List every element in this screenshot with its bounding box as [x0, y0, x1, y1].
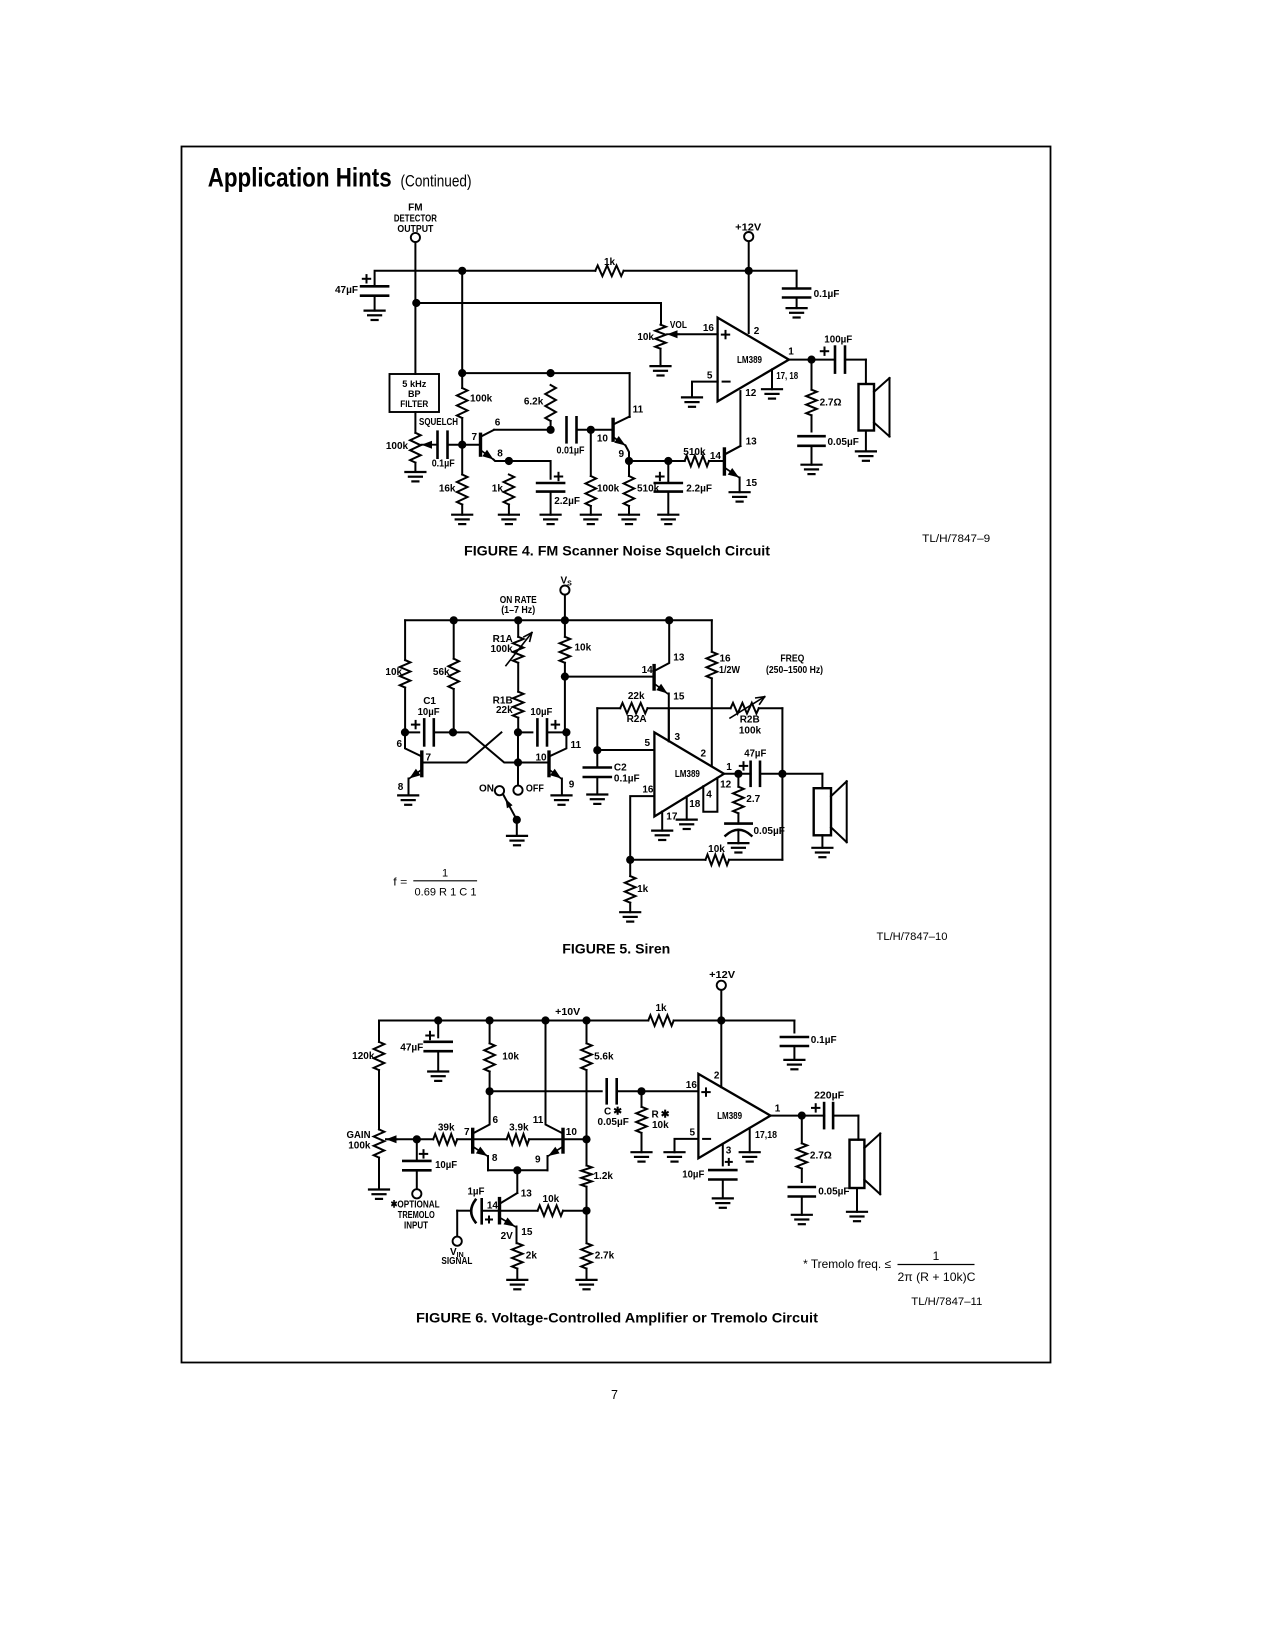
junction C*/R* [637, 1087, 645, 1095]
wire top rail (fig5) [405, 619, 712, 621]
svg-text:10: 10 [597, 434, 609, 445]
svg-text:6: 6 [396, 739, 402, 750]
ground under speaker [856, 450, 876, 452]
resistor 1k (fig4 emitter) [504, 475, 515, 505]
resistor 120k [378, 1021, 380, 1042]
svg-text:16: 16 [686, 1080, 698, 1091]
svg-text:LM389: LM389 [737, 355, 762, 366]
ground pin5 (fig6) [665, 1151, 685, 1153]
svg-text:16k: 16k [439, 483, 456, 494]
junction wiper/10uF [413, 1135, 421, 1143]
resistor 510k horizontal [685, 456, 709, 467]
resistor 100k (fig4 second) [590, 430, 592, 476]
wire output (fig6) [771, 1115, 825, 1117]
junction rail/47uF [434, 1016, 442, 1024]
capacitor 0.1uF squelch [436, 432, 439, 458]
resistor 2.7 ohm (fig6) [801, 1116, 803, 1144]
svg-text:7: 7 [611, 1388, 618, 1402]
wire pin2 (fig6) [720, 1021, 722, 1088]
ground pin5 [682, 396, 702, 398]
svg-text:1: 1 [726, 762, 732, 773]
transistor Q10 (fig6) [561, 1129, 564, 1152]
svg-text:INPUT: INPUT [404, 1220, 428, 1231]
svg-text:1: 1 [788, 347, 794, 358]
svg-text:Application Hints: Application Hints [208, 162, 392, 192]
svg-text:f =: f = [393, 877, 407, 889]
wire pin5 to ground (fig6) [675, 1139, 699, 1152]
svg-text:16: 16 [642, 784, 654, 795]
junction 1.2k / 10k row [582, 1207, 590, 1215]
wire crossover right-to-left [422, 732, 502, 762]
svg-text:FILTER: FILTER [400, 399, 428, 409]
wire R2A row [597, 707, 620, 709]
ground under 2.2uF second [658, 514, 678, 516]
wire pin5 to ground [692, 382, 718, 398]
junction rail/Q10 collector [541, 1016, 549, 1024]
svg-text:15: 15 [673, 691, 685, 702]
wire squelch wiper [422, 444, 438, 446]
svg-text:0.05µF: 0.05µF [598, 1117, 629, 1128]
svg-text:LM389: LM389 [675, 769, 700, 780]
svg-text:10µF: 10µF [530, 707, 552, 718]
svg-text:16: 16 [703, 323, 715, 334]
capacitor 100uF output [834, 347, 837, 373]
svg-text:1k: 1k [655, 1003, 667, 1014]
transistor Q10 (fig5) [547, 752, 550, 776]
svg-text:10µF: 10µF [435, 1160, 457, 1171]
svg-text:22k: 22k [628, 691, 645, 702]
junction C1 left / Q7 collector [401, 728, 409, 736]
ground under 1k (fig5) [620, 911, 640, 913]
svg-text:18: 18 [689, 799, 701, 810]
svg-text:VOL: VOL [670, 320, 687, 331]
svg-text:7: 7 [464, 1127, 470, 1138]
svg-text:1: 1 [933, 1249, 940, 1263]
junction 10uF/R1B [514, 728, 522, 736]
resistor 16k [457, 475, 468, 505]
resistor 2k [512, 1243, 523, 1268]
junction 5.6k / Q10 base [582, 1135, 590, 1143]
svg-text:510k: 510k [683, 447, 706, 458]
wire to Q14 base [565, 676, 654, 678]
resistor 2.7k [586, 1211, 588, 1244]
svg-text:SQUELCH: SQUELCH [419, 417, 458, 428]
svg-text:8: 8 [492, 1153, 498, 1164]
svg-text:+12V: +12V [735, 223, 761, 234]
svg-text:10k: 10k [637, 332, 654, 343]
junction crossover/OFF switch [514, 758, 522, 766]
svg-text:2V: 2V [501, 1231, 514, 1242]
svg-text:100k: 100k [739, 726, 762, 737]
svg-text:R2B: R2B [740, 715, 760, 726]
wire feedback bottom (fig5) [630, 859, 705, 861]
ground under 2.2uF [541, 514, 561, 516]
terminal Vin [453, 1237, 462, 1246]
svg-text:10k: 10k [543, 1194, 560, 1205]
ground Q7 emitter (fig5) [398, 794, 418, 796]
ground under speaker (fig6) [847, 1211, 867, 1213]
resistor R* 10k [641, 1091, 643, 1107]
svg-text:OFF: OFF [526, 783, 544, 794]
ground under 16k [452, 514, 472, 516]
resistor 1.2k [586, 1139, 588, 1165]
svg-text:0.05µF: 0.05µF [818, 1187, 849, 1198]
capacitor 0.05uF (fig6) [789, 1186, 815, 1189]
wire GAIN wiper [386, 1138, 417, 1140]
resistor 10k (fig6 left) [489, 1021, 491, 1044]
junction rail/5.6k [582, 1016, 590, 1024]
resistor 510k vertical [624, 476, 635, 506]
transistor Q7 (fig6) [471, 1129, 474, 1152]
svg-text:100k: 100k [490, 644, 513, 655]
resistor 2.7 ohm [811, 360, 813, 390]
svg-text:5: 5 [707, 370, 713, 381]
capacitor C2 0.1uF [596, 750, 598, 767]
svg-text:9: 9 [569, 780, 575, 791]
wire BP filter to squelch pot [414, 412, 416, 433]
svg-text:5: 5 [644, 738, 650, 749]
resistor 1k (fig4 supply) [595, 266, 623, 277]
transistor Q14 (fig5) [652, 666, 655, 689]
ground under 2k [507, 1279, 527, 1281]
capacitor 10uF pin3 [722, 1144, 724, 1166]
resistor 1k (fig5) [629, 860, 631, 876]
junction output/2.7 [734, 770, 742, 778]
capacitor 10uF right (fig5) [518, 731, 532, 733]
junction 10k / Q14 base wire [561, 673, 569, 681]
wire output (fig5) [724, 773, 751, 775]
resistor 1k (fig6) [648, 1015, 673, 1026]
svg-text:1: 1 [442, 868, 448, 880]
svg-text:FM: FM [408, 203, 422, 214]
node FM DETECTOR OUTPUT terminal [411, 233, 420, 242]
svg-text:2.2µF: 2.2µF [554, 496, 580, 507]
svg-text:(1–7 Hz): (1–7 Hz) [501, 605, 535, 616]
ground pin17 [652, 829, 672, 831]
wire pin12 to Q14 collector [739, 391, 741, 446]
svg-text:2.7: 2.7 [746, 794, 760, 805]
svg-text:5 kHz: 5 kHz [402, 379, 427, 389]
variable resistor R1A 100k [517, 620, 519, 637]
svg-text:14: 14 [710, 451, 722, 462]
svg-text:FIGURE 4. FM Scanner Noise Squ: FIGURE 4. FM Scanner Noise Squelch Circu… [464, 544, 771, 559]
wire +12V to pin2 [748, 271, 750, 333]
ground under VOL pot [651, 365, 671, 367]
transistor Q13 (fig6) [516, 1170, 518, 1193]
svg-text:LM389: LM389 [717, 1111, 742, 1122]
junction emitters / Q13 [513, 1166, 521, 1174]
wire pin16 to VOL wiper [678, 333, 718, 335]
svg-text:17,18: 17,18 [755, 1130, 777, 1141]
wire pin18 to ground [686, 797, 688, 820]
svg-text:R2A: R2A [627, 714, 647, 725]
svg-text:1k: 1k [604, 257, 616, 268]
wire R1B junction down to base row [517, 732, 519, 762]
svg-text:120k: 120k [352, 1051, 375, 1062]
svg-text:2.2µF: 2.2µF [686, 483, 712, 494]
junction 0.01uF / 100k [587, 426, 595, 434]
svg-text:10: 10 [566, 1127, 578, 1138]
svg-text:TL/H/7847–11: TL/H/7847–11 [911, 1296, 982, 1308]
junction rail/10k [486, 1016, 494, 1024]
svg-text:3: 3 [675, 732, 681, 743]
wire 16ohm to pin2 [711, 678, 713, 766]
transistor Q7 (fig4) [479, 434, 482, 455]
op-amp U3 LM389 (fig6) [698, 1074, 770, 1158]
junction switch arm [513, 816, 521, 824]
svg-text:17, 18: 17, 18 [776, 371, 798, 382]
resistor 39k [417, 1138, 433, 1140]
svg-text:SIGNAL: SIGNAL [441, 1256, 472, 1267]
wire pins17,18 to ground (fig6) [749, 1128, 751, 1152]
junction Q7 emitter / 1k [505, 457, 513, 465]
svg-text:FREQ: FREQ [780, 654, 804, 665]
svg-text:39k: 39k [438, 1123, 455, 1134]
svg-text:2: 2 [754, 326, 760, 337]
ground under 1k [499, 514, 519, 516]
svg-text:10µF: 10µF [418, 707, 440, 718]
wire 100k branch vertical [461, 271, 463, 388]
ground under squelch pot [405, 471, 425, 473]
ground pins 17,18 [762, 388, 782, 390]
svg-text:FIGURE 5. Siren: FIGURE 5. Siren [562, 942, 670, 957]
wire emitter row to 2.2uF [509, 461, 551, 479]
svg-text:6.2k: 6.2k [524, 397, 544, 408]
capacitor 0.01uF [565, 417, 568, 442]
svg-text:2.7Ω: 2.7Ω [810, 1151, 832, 1162]
ground under speaker (fig5) [812, 847, 832, 849]
ground under 2.7k [577, 1279, 597, 1281]
svg-text:10: 10 [535, 752, 547, 763]
junction rail/100k branch [458, 267, 466, 275]
svg-text:2k: 2k [526, 1251, 538, 1262]
wire +12V rail top (fig4) [375, 271, 596, 286]
svg-text:100k: 100k [386, 441, 409, 452]
svg-text:2: 2 [700, 749, 706, 760]
junction bias row left [458, 369, 466, 377]
ground under 510k [619, 514, 639, 516]
svg-text:(250–1500 Hz): (250–1500 Hz) [766, 665, 823, 676]
svg-text:2.7Ω: 2.7Ω [820, 398, 842, 409]
svg-text:1.2k: 1.2k [594, 1171, 614, 1182]
ground under 47uF (fig6) [428, 1070, 448, 1072]
junction feedback/1k [626, 856, 634, 864]
svg-text:(Continued): (Continued) [401, 171, 472, 190]
capacitor 2.2uF (fig4 second) [667, 461, 669, 483]
svg-text:0.1µF: 0.1µF [814, 289, 840, 300]
svg-text:0.05µF: 0.05µF [828, 437, 859, 448]
resistor 10k (fig5 mid) [564, 620, 566, 637]
svg-text:12: 12 [745, 388, 757, 399]
svg-text:C✱: C✱ [604, 1106, 622, 1118]
wire pin17 to ground [661, 812, 663, 831]
svg-text:0.1µF: 0.1µF [432, 459, 455, 470]
wire Vs to rail [564, 595, 566, 621]
resistor 10k (fig5 left) [404, 620, 406, 660]
wire pins 17,18 to ground [771, 369, 773, 389]
svg-text:11: 11 [571, 740, 582, 751]
wire crossover left-to-right [453, 732, 549, 762]
junction rail/56k [450, 616, 458, 624]
wire Q13 base row / 10k [482, 1210, 538, 1212]
svg-text:+10V: +10V [555, 1007, 580, 1018]
junction 47uF/R2B/feedback [778, 770, 786, 778]
variable resistor R2B 100k [731, 703, 759, 714]
resistor R2A 22k [620, 703, 647, 714]
capacitor 10uF tremolo input [416, 1139, 418, 1161]
svg-text:0.1µF: 0.1µF [811, 1035, 837, 1046]
junction pin5/C2 [593, 746, 601, 754]
wire bias row (fig4) [462, 372, 629, 374]
junction emitter row / 510k [625, 457, 633, 465]
svg-text:5: 5 [689, 1128, 695, 1139]
svg-text:1/2W: 1/2W [719, 665, 741, 676]
junction output node [807, 356, 815, 364]
svg-text:4: 4 [706, 789, 712, 800]
svg-text:8: 8 [398, 782, 404, 793]
switch ON contact [495, 786, 504, 795]
svg-text:10µF: 10µF [682, 1170, 704, 1181]
wire Q10 base to 5.6k [563, 1138, 587, 1140]
svg-text:47µF: 47µF [335, 285, 358, 296]
wire coupling row to C* [490, 1090, 602, 1092]
wire FM detector vertical to BP filter [414, 242, 416, 374]
junction output/2.7ohm [798, 1112, 806, 1120]
svg-text:10k: 10k [652, 1120, 669, 1131]
svg-text:11: 11 [633, 404, 644, 415]
ground under R* [632, 1151, 652, 1153]
page border frame [182, 147, 1051, 1363]
svg-text:12: 12 [720, 780, 732, 791]
svg-text:1k: 1k [492, 483, 504, 494]
ground pins17,18 (fig6) [740, 1151, 760, 1153]
ground under 0.1uF (fig6) [784, 1059, 804, 1061]
svg-text:TL/H/7847–9: TL/H/7847–9 [922, 533, 990, 545]
wire joined emitters [488, 1169, 548, 1171]
svg-text:2π (R + 10k)C: 2π (R + 10k)C [898, 1270, 976, 1284]
junction FM vertical / volume rail [412, 299, 420, 307]
junction C1 right / 56k [449, 728, 457, 736]
junction bias row / 6.2k [547, 369, 555, 377]
svg-text:ON: ON [479, 783, 494, 794]
wire output pin1 (fig4) [789, 359, 835, 361]
terminal +12V (fig4) [744, 232, 753, 241]
svg-text:10k: 10k [708, 844, 725, 855]
svg-text:1µF: 1µF [468, 1186, 485, 1197]
capacitor 0.05uF (fig5, curved plate) [725, 822, 751, 825]
ground pin18 [677, 818, 697, 820]
svg-text:15: 15 [746, 478, 758, 489]
switch arm [503, 795, 517, 820]
svg-text:47µF: 47µF [400, 1043, 423, 1054]
terminal Vs (fig5) [560, 586, 569, 595]
capacitor C1 10uF [405, 731, 419, 733]
resistor 2.7 (fig5) [737, 774, 739, 787]
op-amp U2 LM389 (fig5) [654, 732, 724, 816]
wire pin16 feedback [630, 796, 654, 860]
capacitor 2.2uF (fig4 first) [537, 482, 564, 485]
resistor 10k (fig6 right) [538, 1205, 563, 1216]
junction emitter row / 2.2uF second [664, 457, 672, 465]
svg-text:13: 13 [521, 1188, 533, 1199]
svg-text:100k: 100k [597, 483, 620, 494]
svg-text:2.7k: 2.7k [595, 1251, 615, 1262]
ground under GAIN pot [369, 1188, 389, 1190]
resistor 100k (fig4 branch) [457, 388, 468, 418]
ground under Q14 emitter [730, 491, 750, 493]
wire pin5 [597, 749, 654, 751]
svg-text:11: 11 [533, 1115, 544, 1126]
svg-text:BP: BP [408, 389, 421, 399]
pin 4/12 box [703, 778, 717, 812]
svg-text:3: 3 [726, 1146, 732, 1157]
terminal tremolo input [412, 1189, 421, 1198]
switch OFF contact [513, 786, 522, 795]
junction 100k chain / Q7 base [458, 441, 466, 449]
potentiometer VOL 10k [655, 325, 666, 349]
ground switch [507, 835, 527, 837]
svg-text:7: 7 [426, 752, 432, 763]
svg-text:7: 7 [471, 432, 477, 443]
svg-text:3.9k: 3.9k [509, 1123, 529, 1134]
speaker (fig4) [859, 384, 875, 431]
svg-text:1k: 1k [637, 884, 649, 895]
svg-text:100k: 100k [470, 394, 493, 405]
capacitor C* 0.05uF [605, 1079, 608, 1103]
svg-text:0.05µF: 0.05µF [754, 826, 785, 837]
svg-text:TREMOLO: TREMOLO [398, 1210, 435, 1221]
svg-text:8: 8 [497, 449, 503, 460]
op-amp U1 LM389 (fig4) [718, 318, 789, 402]
junction rail/+12V [717, 1016, 725, 1024]
svg-text:0.1µF: 0.1µF [614, 774, 640, 785]
svg-text:47µF: 47µF [744, 749, 766, 760]
ground under 0.05uF (fig6) [792, 1214, 812, 1216]
wire volume rail (fig4) [415, 302, 661, 304]
svg-text:FIGURE 6. Voltage-Controlled A: FIGURE 6. Voltage-Controlled Amplifier o… [416, 1311, 819, 1326]
svg-text:C2: C2 [614, 762, 627, 773]
capacitor 220uF [823, 1103, 826, 1128]
wire pin3 [668, 708, 670, 741]
ground under 100k second [581, 514, 601, 516]
svg-text:17: 17 [666, 811, 678, 822]
svg-text:14: 14 [642, 665, 654, 676]
transistor Q14 (fig4) [723, 449, 726, 474]
svg-text:10k: 10k [385, 667, 402, 678]
junction rail/+12V [745, 267, 753, 275]
ground under 47uF [365, 310, 385, 312]
speaker (fig5) [814, 788, 831, 835]
svg-text:13: 13 [673, 652, 685, 663]
svg-text:100µF: 100µF [824, 334, 852, 345]
potentiometer SQUELCH 100k [410, 433, 421, 463]
resistor 56k [453, 620, 455, 658]
capacitor 0.1uF (fig4 supply) [783, 287, 810, 290]
ground under 0.1uF [787, 307, 807, 309]
svg-text:* Tremolo freq. ≤: * Tremolo freq. ≤ [803, 1257, 891, 1271]
resistor 16 ohm 1/2W [711, 620, 713, 652]
svg-text:220µF: 220µF [814, 1091, 844, 1102]
svg-text:DETECTOR: DETECTOR [394, 214, 438, 225]
wire Q10 emitter row [629, 460, 685, 462]
capacitor 47uF (fig4) [361, 285, 388, 288]
svg-text:C1: C1 [423, 696, 436, 707]
svg-text:1: 1 [775, 1104, 781, 1115]
resistor 6.2k [545, 385, 556, 421]
resistor 3.9k [473, 1138, 507, 1140]
junction rail/Vs [561, 616, 569, 624]
ground under 10uF pin3 [713, 1197, 733, 1199]
